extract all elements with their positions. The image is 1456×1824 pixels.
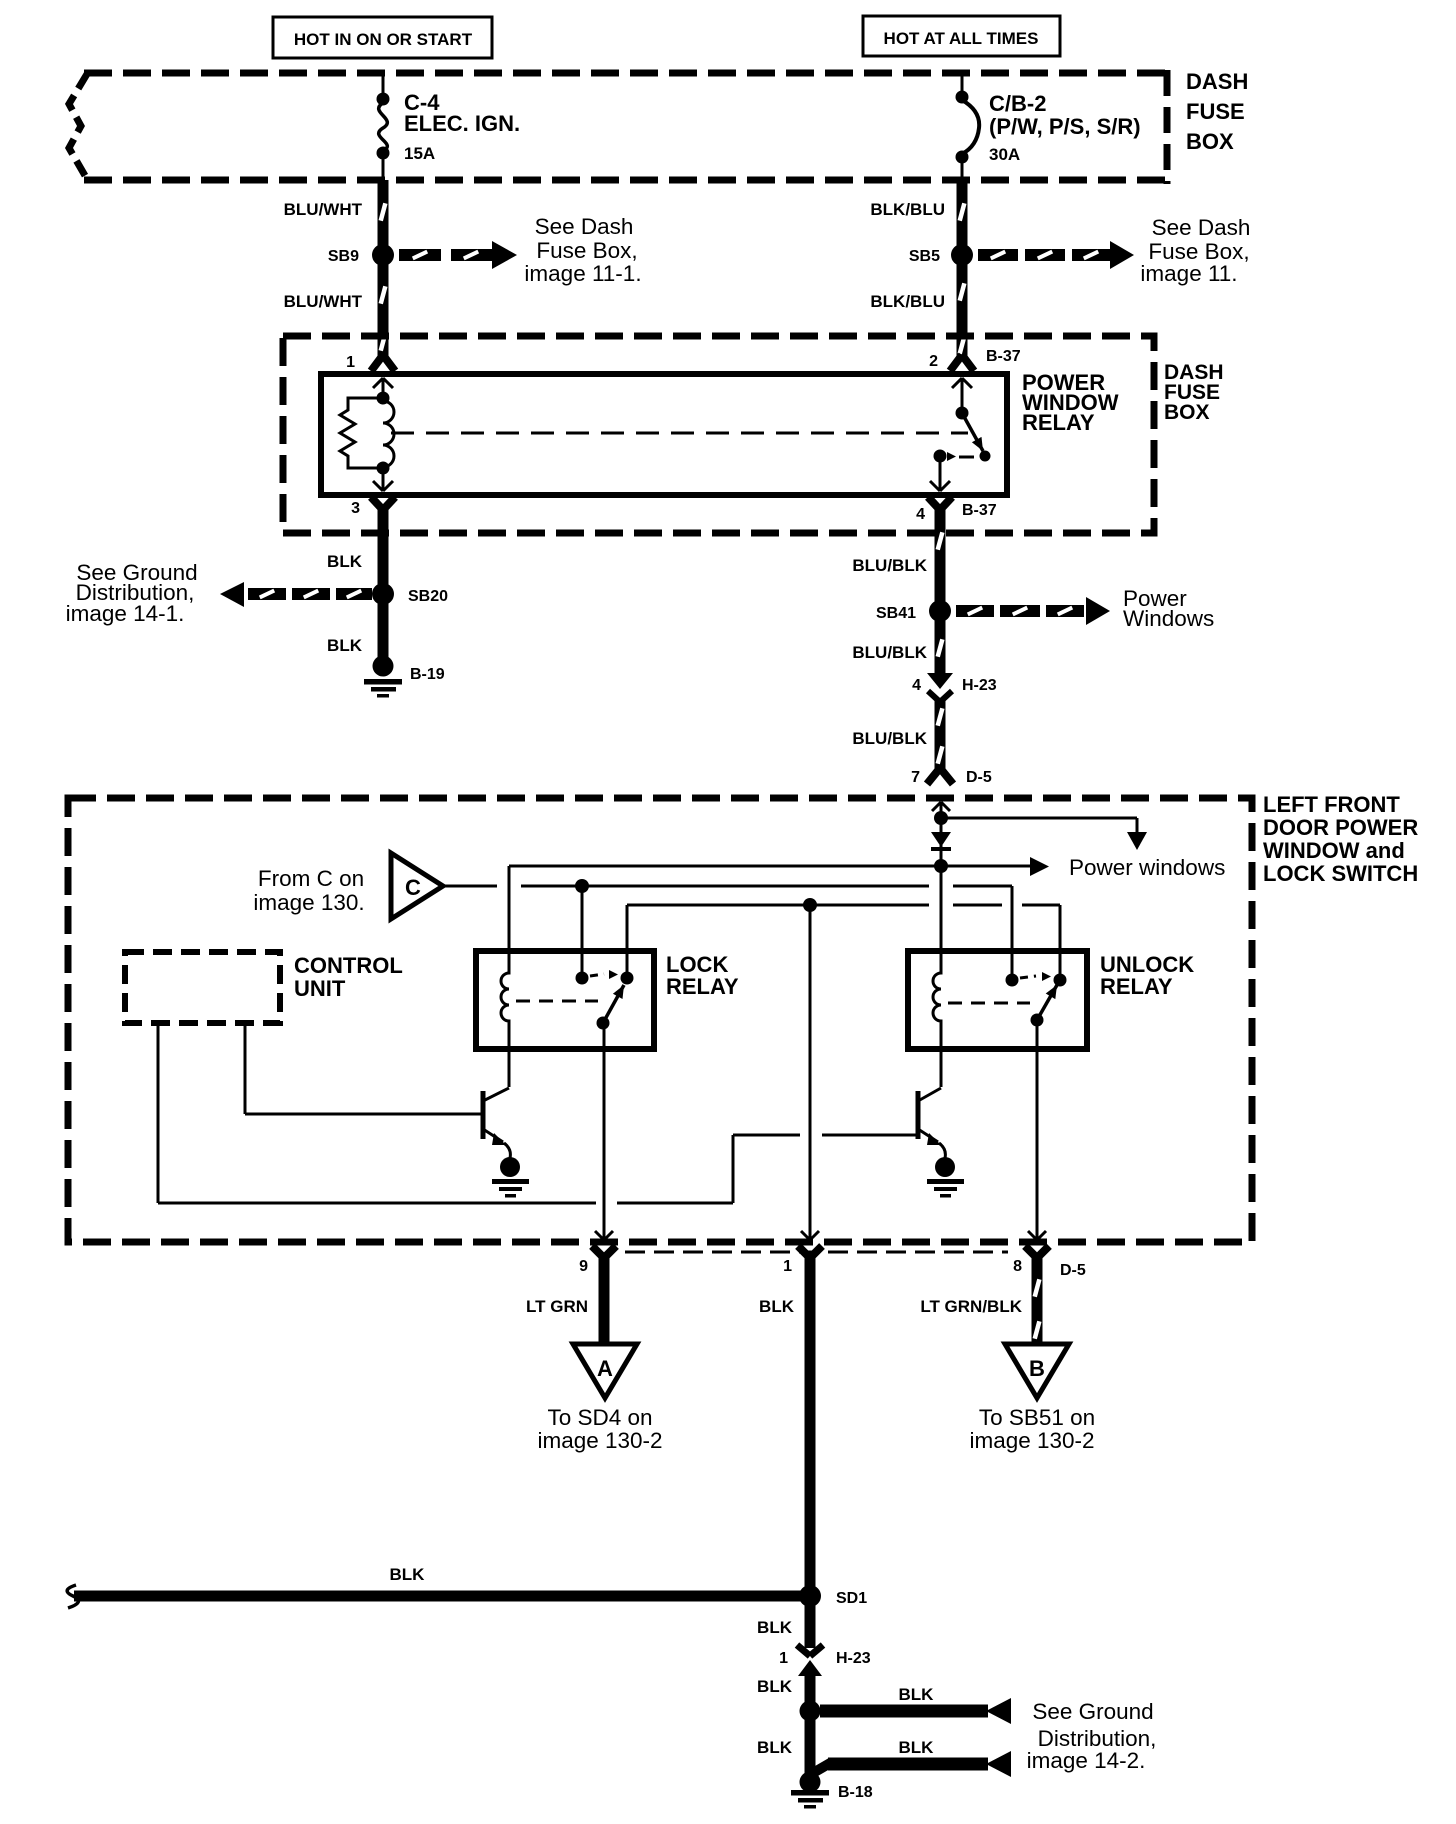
ground at unlock transistor emitter xyxy=(927,1157,964,1198)
svg-text:8: 8 xyxy=(1013,1258,1022,1275)
svg-text:BLK: BLK xyxy=(757,1618,793,1637)
svg-text:4: 4 xyxy=(912,677,921,694)
lock relay left contact node xyxy=(576,972,589,985)
pin 7 internal arrow up into box xyxy=(932,802,950,815)
ground B-19 xyxy=(364,656,445,698)
lock relay right contact node xyxy=(621,972,634,985)
node SB9 xyxy=(328,244,394,266)
wire BLK from pin 1 down to SD1 xyxy=(805,1254,816,1592)
wire rail to lock relay coil xyxy=(509,865,941,868)
power window relay box U1 xyxy=(321,374,1007,495)
svg-text:B-18: B-18 xyxy=(838,1784,873,1801)
text see dash fuse box image 11 xyxy=(1140,215,1250,286)
svg-text:SB41: SB41 xyxy=(876,605,916,622)
wire BLK/BLU from breaker C/B-2 to relay pin 2 xyxy=(958,180,967,358)
svg-text:image 14-1.: image 14-1. xyxy=(66,601,185,626)
relay pin 4 internal arrow down xyxy=(930,461,950,491)
wire BLK arrow from see ground distribution (lower) xyxy=(813,1738,1011,1777)
text see dash fuse box image 11-1 xyxy=(524,214,641,286)
svg-text:15A: 15A xyxy=(404,144,435,163)
text To SD4 on image 130-2 xyxy=(537,1405,662,1453)
node relay coil top xyxy=(377,392,390,405)
svg-text:LEFT FRONT: LEFT FRONT xyxy=(1263,792,1400,817)
svg-text:ELEC. IGN.: ELEC. IGN. xyxy=(404,111,520,136)
node relay coil bottom xyxy=(377,462,390,475)
circuit breaker C/B-2 (P/W, P/S, S/R) 30A xyxy=(956,73,1141,180)
svg-text:BLK: BLK xyxy=(757,1677,793,1696)
wire middle BLK drop to pin 1 xyxy=(801,905,819,1240)
lock relay coil xyxy=(501,866,509,1087)
svg-text:BLU/BLK: BLU/BLK xyxy=(852,729,927,748)
svg-text:BLK: BLK xyxy=(899,1738,935,1757)
wire dashed arrow from SB5 to see dash fuse box xyxy=(978,241,1134,269)
svg-text:image 14-2.: image 14-2. xyxy=(1027,1748,1146,1773)
fuse C-4 ELEC. IGN. 15A xyxy=(377,73,521,180)
svg-text:BLK: BLK xyxy=(390,1565,426,1584)
triangle connector C from image 130 xyxy=(391,853,443,919)
svg-text:(P/W, P/S, S/R): (P/W, P/S, S/R) xyxy=(989,114,1141,139)
relay pin 3 internal arrow down xyxy=(373,470,393,491)
wire BLK from SD1 to H-23 xyxy=(805,1602,816,1648)
svg-text:C: C xyxy=(405,875,421,900)
label DASH FUSE BOX (top right) xyxy=(1186,69,1248,154)
wire main feed through diode xyxy=(940,818,943,875)
control unit dashed box xyxy=(125,952,403,1023)
svg-text:BLK/BLU: BLK/BLU xyxy=(870,292,945,311)
text see ground distribution image 14-2 xyxy=(1027,1699,1157,1773)
wire dashed arrow from SB41 to power windows xyxy=(956,597,1110,625)
label LEFT FRONT DOOR POWER WINDOW and LOCK SWITCH xyxy=(1263,792,1418,886)
text To SB51 on image 130-2 xyxy=(969,1405,1095,1453)
wire BLK from relay pin 3 to SB20 xyxy=(378,505,389,590)
svg-text:image 11.: image 11. xyxy=(1140,261,1237,286)
transistor Q1 lock driver xyxy=(483,1088,510,1158)
svg-text:LT GRN/BLK: LT GRN/BLK xyxy=(920,1297,1022,1316)
unlock relay left contact node xyxy=(1006,974,1019,987)
svg-text:FUSE: FUSE xyxy=(1186,99,1245,124)
ground B-18 xyxy=(791,1772,873,1809)
pin 4 connector splay below relay xyxy=(916,497,997,523)
pin 2 connector splay at relay xyxy=(929,348,1021,371)
svg-text:2: 2 xyxy=(929,353,938,370)
svg-text:BLK: BLK xyxy=(759,1297,795,1316)
wire arrow to Power windows xyxy=(941,855,1225,880)
connector pin 7 D-5 splay xyxy=(911,768,992,786)
pin 9 connector splay xyxy=(579,1246,616,1275)
svg-text:BLK: BLK xyxy=(899,1685,935,1704)
svg-text:1: 1 xyxy=(783,1258,792,1275)
wire LT GRN/BLK from pin 8 to triangle B xyxy=(1033,1254,1042,1343)
svg-text:image 130-2: image 130-2 xyxy=(969,1428,1094,1453)
wire lock relay common down to pin 9 xyxy=(595,1023,613,1240)
relay coil L1 xyxy=(383,397,394,468)
wire BLU/BLK from H-23 to D-5 pin 7 xyxy=(936,699,945,770)
text Power Windows xyxy=(1123,586,1214,631)
unlock relay coil on main feed xyxy=(933,873,941,1087)
svg-text:From C on: From C on xyxy=(258,866,364,891)
relay switch blade xyxy=(962,413,991,462)
svg-text:UNIT: UNIT xyxy=(294,976,346,1001)
svg-text:BLK: BLK xyxy=(757,1738,793,1757)
svg-text:BLK/BLU: BLK/BLU xyxy=(870,200,945,219)
triangle connector A to SD4 xyxy=(573,1344,637,1398)
svg-text:DOOR POWER: DOOR POWER xyxy=(1263,815,1418,840)
wire rail lock right contact to unlock right contact (hops at 941 and 1012) xyxy=(627,905,1060,976)
svg-text:BLU/WHT: BLU/WHT xyxy=(284,292,363,311)
svg-text:BLU/WHT: BLU/WHT xyxy=(284,200,363,219)
relay pin 1 internal arrow up xyxy=(373,378,393,398)
svg-text:B-37: B-37 xyxy=(962,502,997,519)
svg-text:RELAY: RELAY xyxy=(1022,410,1095,435)
svg-text:3: 3 xyxy=(351,500,360,517)
relay actuation dashed line from coil to switch xyxy=(391,432,968,435)
svg-text:See Dash: See Dash xyxy=(1152,215,1251,240)
svg-text:D-5: D-5 xyxy=(1060,1262,1086,1279)
lock relay blade from common xyxy=(597,985,625,1030)
node SB5 xyxy=(909,244,973,266)
svg-text:SB20: SB20 xyxy=(408,588,448,605)
label DASH FUSE BOX (right of relay) xyxy=(1164,361,1224,424)
wire LT GRN from pin 9 to triangle A xyxy=(599,1254,610,1343)
hot in on or start label box xyxy=(273,17,492,58)
wire BLK horizontal to SD1 with cut squiggle xyxy=(67,1565,802,1608)
node on rail at lock relay left contact drop xyxy=(575,879,589,893)
wire control unit left pin to unlock transistor base xyxy=(158,1023,918,1203)
relay switch contact node xyxy=(934,450,975,463)
svg-text:BOX: BOX xyxy=(1186,129,1234,154)
svg-text:SB5: SB5 xyxy=(909,248,940,265)
svg-text:HOT IN ON OR START: HOT IN ON OR START xyxy=(294,30,473,49)
ground at lock transistor emitter xyxy=(492,1157,529,1198)
unlock relay right contact node xyxy=(1054,974,1067,987)
node SD1 xyxy=(799,1585,867,1607)
dash fuse box (top) dashed outline xyxy=(69,70,1167,184)
unlock relay box xyxy=(908,951,1194,1049)
svg-text:RELAY: RELAY xyxy=(666,974,739,999)
connector 4 H-23 xyxy=(912,673,997,702)
svg-text:30A: 30A xyxy=(989,145,1020,164)
lock relay contact dashed throw with arrow xyxy=(590,970,618,979)
wire branch to power window switch arrow down xyxy=(941,818,1147,850)
svg-text:To SB51 on: To SB51 on xyxy=(979,1405,1095,1430)
svg-text:image 130.: image 130. xyxy=(253,890,364,915)
svg-text:Fuse Box,: Fuse Box, xyxy=(536,238,637,263)
unlock relay contact dashed throw with arrow xyxy=(1020,972,1051,981)
svg-text:B: B xyxy=(1029,1356,1045,1381)
svg-text:H-23: H-23 xyxy=(836,1650,871,1667)
svg-text:C/B-2: C/B-2 xyxy=(989,91,1046,116)
wire BLK arrow from see ground distribution (upper) xyxy=(820,1685,1011,1724)
text From C on image 130 xyxy=(253,866,364,915)
svg-text:See Dash: See Dash xyxy=(535,214,634,239)
svg-text:LT GRN: LT GRN xyxy=(526,1297,588,1316)
left front door power window and lock switch dashed box xyxy=(68,798,1252,1242)
svg-text:Power windows: Power windows xyxy=(1069,855,1225,880)
wire unlock relay common down to pin 8 xyxy=(1028,1020,1046,1240)
svg-text:BOX: BOX xyxy=(1164,401,1210,424)
node on rail at middle BLK drop xyxy=(803,898,817,912)
svg-text:B-37: B-37 xyxy=(986,348,1021,365)
svg-text:LOCK SWITCH: LOCK SWITCH xyxy=(1263,861,1418,886)
svg-text:HOT AT ALL TIMES: HOT AT ALL TIMES xyxy=(884,29,1039,48)
svg-text:SD1: SD1 xyxy=(836,1590,867,1607)
wire rail from C to unlock relay left contact (hops at 509 and 941) xyxy=(443,886,1012,976)
relay switch pivot node xyxy=(956,407,969,420)
svg-text:4: 4 xyxy=(916,506,925,523)
wire BLU/BLK from relay pin 4 to H-23 xyxy=(936,505,945,676)
unlock relay blade from common xyxy=(1031,985,1058,1027)
pin 3 connector splay below relay xyxy=(351,497,395,517)
triangle connector B to SB51 xyxy=(1005,1344,1069,1398)
pin 1 connector splay xyxy=(783,1246,822,1275)
svg-text:B-19: B-19 xyxy=(410,666,445,683)
wire BLK from H-23 to junction xyxy=(805,1672,816,1702)
svg-text:BLU/BLK: BLU/BLK xyxy=(852,556,927,575)
wire control unit right pin to lock transistor base xyxy=(245,1023,483,1114)
svg-text:7: 7 xyxy=(911,769,920,786)
node SB20 xyxy=(372,583,448,605)
svg-text:1: 1 xyxy=(779,1650,788,1667)
diode D1 xyxy=(931,832,951,851)
svg-text:CONTROL: CONTROL xyxy=(294,953,403,978)
pin 8 connector splay xyxy=(1013,1246,1049,1275)
svg-text:BLU/BLK: BLU/BLK xyxy=(852,643,927,662)
connector 1 H-23 lower xyxy=(779,1645,871,1676)
svg-text:A: A xyxy=(597,1356,613,1381)
svg-text:See Ground: See Ground xyxy=(1032,1699,1153,1724)
svg-text:1: 1 xyxy=(346,354,355,371)
hot at all times label box xyxy=(863,16,1060,56)
connector D-5 dashed tie line below box xyxy=(625,1251,1008,1254)
svg-text:BLK: BLK xyxy=(327,636,363,655)
wire dashed arrow from SB20 to see ground distribution xyxy=(220,582,372,607)
node feed top xyxy=(934,811,948,825)
relay pin 2 internal arrow up xyxy=(952,378,972,408)
svg-text:image 130-2: image 130-2 xyxy=(537,1428,662,1453)
junction node above ground xyxy=(800,1701,821,1722)
lock relay box xyxy=(476,951,739,1049)
svg-text:WINDOW and: WINDOW and xyxy=(1263,838,1405,863)
svg-text:SB9: SB9 xyxy=(328,248,359,265)
node feed lower xyxy=(934,859,948,873)
wire BLU/WHT from fuse C-4 to relay pin 1 xyxy=(379,180,388,358)
svg-text:H-23: H-23 xyxy=(962,677,997,694)
svg-text:RELAY: RELAY xyxy=(1100,974,1173,999)
label POWER WINDOW RELAY xyxy=(1022,370,1119,435)
dash fuse box (second) dashed outline xyxy=(283,336,1154,533)
svg-text:Windows: Windows xyxy=(1123,606,1214,631)
wire drop to lock relay left contact xyxy=(581,886,584,974)
unlock relay actuation dashed line xyxy=(948,1002,1030,1005)
svg-text:DASH: DASH xyxy=(1186,69,1248,94)
svg-text:image 11-1.: image 11-1. xyxy=(524,261,641,286)
pin 1 connector splay at relay xyxy=(346,354,395,371)
lock relay actuation dashed line xyxy=(516,1000,598,1003)
svg-text:BLK: BLK xyxy=(327,552,363,571)
wire BLK from SB20 to ground B-19 xyxy=(378,598,389,657)
svg-text:9: 9 xyxy=(579,1258,588,1275)
transistor Q2 unlock driver xyxy=(918,1088,945,1158)
wire BLK from junction to ground B-18 xyxy=(805,1718,816,1775)
svg-text:To SD4 on: To SD4 on xyxy=(547,1405,652,1430)
resistor inside relay xyxy=(340,398,383,468)
node SB41 xyxy=(876,600,951,622)
svg-text:D-5: D-5 xyxy=(966,769,992,786)
wire dashed arrow from SB9 to see dash fuse box xyxy=(399,241,517,269)
text see ground distribution image 14-1 xyxy=(66,560,198,626)
